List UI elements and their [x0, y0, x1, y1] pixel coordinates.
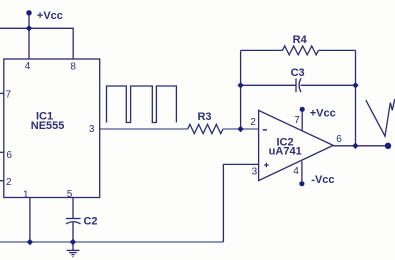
wire pin4 stem	[301, 161, 303, 181]
svg-text:R3: R3	[197, 111, 211, 123]
wire pin7 stem	[301, 112, 303, 131]
wire pin5 drop	[72, 198, 74, 219]
svg-text:C3: C3	[291, 67, 305, 79]
wire opamp output	[333, 145, 388, 147]
wire inverting node riser	[240, 50, 242, 129]
wire top +Vcc rail	[0, 28, 73, 59]
svg-text:2: 2	[6, 177, 12, 188]
svg-text:3: 3	[252, 167, 258, 178]
IC1 NE555 body	[4, 59, 100, 198]
wire pin2 stub	[0, 180, 4, 182]
wire R4 right lead	[318, 49, 355, 51]
svg-text:+Vcc: +Vcc	[37, 10, 63, 22]
wire right feedback drop	[355, 50, 357, 145]
svg-text:4: 4	[25, 61, 31, 72]
wire R4 left lead	[241, 49, 283, 51]
svg-text:-Vcc: -Vcc	[311, 174, 334, 186]
svg-text:8: 8	[70, 61, 76, 72]
node -Vcc opamp dot	[299, 181, 304, 186]
svg-text:uA741: uA741	[269, 146, 302, 158]
svg-text:+Vcc: +Vcc	[310, 107, 336, 119]
svg-text:3: 3	[89, 124, 95, 135]
svg-text:R4: R4	[293, 34, 308, 46]
junction C3 right	[352, 82, 358, 88]
triangle wave symbol	[366, 99, 395, 136]
op-amp U-IC2 triangle	[259, 110, 334, 180]
wire pin7 stub	[0, 92, 4, 94]
plus sign pin3	[264, 163, 268, 167]
svg-text:7: 7	[6, 90, 12, 101]
junction +Vcc rail	[26, 25, 32, 31]
node output terminal dot	[385, 143, 391, 149]
wire riser to pin3 of opamp	[223, 164, 258, 242]
svg-text:4: 4	[293, 166, 299, 177]
wire pin1 drop	[29, 198, 31, 243]
node +Vcc terminal dot	[26, 10, 31, 15]
ground	[67, 242, 80, 257]
wire pin4 riser	[28, 28, 30, 59]
resistor R4	[283, 46, 319, 55]
wire IC1 pin3 output	[100, 128, 188, 130]
wire R3 to opamp pin2	[223, 128, 259, 130]
wire +Vcc stem	[28, 13, 30, 28]
svg-text:5: 5	[67, 189, 73, 200]
square wave symbol	[107, 86, 177, 123]
svg-text:1: 1	[23, 190, 29, 201]
svg-text:NE555: NE555	[31, 120, 65, 132]
junction C2 / ground rail	[70, 239, 76, 245]
wire ground rail	[0, 241, 223, 243]
resistor R3	[188, 124, 223, 133]
junction C3 left	[237, 82, 243, 88]
wire C3 left lead	[241, 84, 296, 86]
wire pin6 stub	[0, 151, 4, 153]
svg-text:6: 6	[336, 134, 342, 145]
capacitor C3	[296, 78, 356, 92]
svg-text:C2: C2	[83, 216, 97, 228]
minus sign pin2	[263, 129, 267, 131]
junction pin1 / ground rail	[27, 239, 33, 245]
junction inverting input node	[237, 126, 243, 132]
junction output node	[352, 143, 358, 149]
node +Vcc opamp dot	[300, 107, 305, 112]
svg-text:6: 6	[6, 150, 12, 161]
capacitor C2	[66, 219, 81, 243]
svg-text:7: 7	[294, 115, 300, 126]
svg-text:2: 2	[250, 117, 256, 128]
